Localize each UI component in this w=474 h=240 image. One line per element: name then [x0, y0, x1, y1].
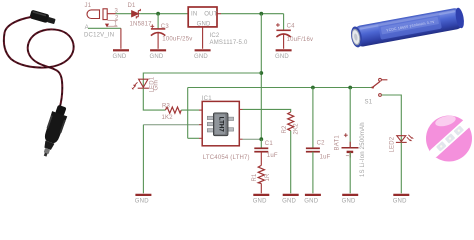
ground GND (BAT1): [342, 195, 359, 205]
svg-text:1uF: 1uF: [320, 155, 331, 161]
LED LED2: [396, 135, 414, 143]
svg-text:C1: C1: [265, 141, 274, 147]
svg-text:AMS1117-5.0: AMS1117-5.0: [210, 40, 248, 46]
svg-text:C4: C4: [287, 24, 296, 30]
svg-text:GND: GND: [253, 199, 267, 205]
svg-text:1S Li-Ion 2500mAh: 1S Li-Ion 2500mAh: [360, 122, 366, 177]
node junction LED1 rail: [259, 71, 263, 75]
wire C2 to ground: [312, 152, 314, 194]
svg-text:1N5817: 1N5817: [130, 22, 153, 28]
wire S1 to LED2: [381, 95, 401, 142]
svg-text:GND: GND: [282, 199, 296, 205]
wire R3 to IC1: [181, 109, 199, 111]
svg-text:1R: 1R: [265, 173, 271, 182]
wire 5V vertical bus: [260, 14, 262, 140]
ground GND (C2): [304, 195, 321, 205]
node junction BAT/C1: [259, 137, 263, 141]
svg-text:Grn: Grn: [154, 80, 160, 91]
transistor chip photo inside IC1: [207, 113, 233, 136]
diode D1 1N5817: [132, 9, 141, 19]
photo: blue 18650 li-ion battery: [349, 7, 465, 48]
svg-text:R3: R3: [162, 104, 171, 110]
svg-text:DC12V_IN: DC12V_IN: [84, 33, 114, 39]
photo: DC barrel plug cable with car lighter plug: [4, 10, 74, 159]
svg-text:C3: C3: [161, 24, 170, 30]
svg-text:LTC4054 (LTH7): LTC4054 (LTH7): [203, 155, 250, 161]
svg-text:IC1: IC1: [202, 96, 212, 102]
svg-text:1K2: 1K2: [162, 115, 174, 121]
svg-text:GND: GND: [197, 21, 211, 27]
ground GND (R1): [253, 195, 270, 205]
ground GND (LED2): [393, 195, 410, 205]
resistor R1 1R: [258, 165, 264, 183]
capacitor C1 1uF: [254, 148, 268, 151]
LED LED1 Grn: [132, 79, 149, 89]
svg-text:LTH7: LTH7: [217, 117, 224, 133]
wire IC1 BAT pin to C1 node: [239, 138, 242, 140]
ground GND (IC2): [194, 50, 211, 60]
wire IC1 VCC pin up to BAT rail: [199, 137, 202, 139]
J1 pin 1: [108, 25, 118, 27]
node junction 5V bus tap: [259, 12, 263, 16]
svg-text:C2: C2: [317, 141, 326, 147]
capacitor C2 1uF: [306, 148, 320, 151]
wire R1 to ground: [260, 184, 262, 194]
wire battery to ground: [349, 152, 351, 193]
wire IC2 OUT to C4 corner: [217, 13, 221, 15]
svg-text:GND: GND: [135, 199, 149, 205]
node junction battery tap: [348, 86, 352, 90]
svg-text:J1: J1: [85, 3, 92, 9]
svg-text:GND: GND: [150, 54, 164, 60]
svg-text:2K2: 2K2: [294, 123, 300, 135]
wire C2 drop: [312, 88, 314, 148]
resistor R2 2K2: [288, 112, 294, 131]
svg-text:10uF/16v: 10uF/16v: [287, 37, 314, 43]
photo: pink circle with LED strip: [426, 114, 472, 162]
ground GND (J1): [113, 50, 130, 60]
svg-text:1uF: 1uF: [267, 153, 278, 159]
wire C4 drop: [283, 14, 285, 30]
wire C1 to R1: [260, 152, 262, 166]
ground GND (C3): [150, 50, 167, 60]
barrel plug body: [29, 10, 56, 26]
switch S1: [371, 78, 387, 96]
wire LED1 rail: [143, 73, 261, 88]
svg-text:GND: GND: [113, 54, 127, 60]
svg-text:OUT: OUT: [204, 11, 217, 17]
wire R2 to ground: [290, 131, 292, 194]
ground GND (R2): [282, 195, 299, 205]
connector J1 DC jack: [87, 9, 115, 20]
svg-text:IC2: IC2: [210, 33, 220, 39]
svg-text:LED2: LED2: [389, 136, 395, 152]
car lighter plug: [38, 104, 70, 159]
J1 pin 2: [108, 19, 118, 21]
wire IC1 GND pin to left: [199, 124, 202, 126]
svg-text:IN: IN: [191, 11, 197, 17]
wire IC1 PROG to R2: [239, 108, 242, 110]
coiled red cable: [4, 17, 74, 109]
wire BAT rail: [188, 87, 372, 89]
wire LED1 cathode down: [143, 88, 165, 110]
svg-text:S1: S1: [365, 99, 373, 105]
regulator IC2 AMS1117-5.0: [188, 7, 217, 27]
svg-text:GND: GND: [393, 199, 407, 205]
wire DC12V_IN: [88, 27, 121, 29]
svg-text:GND: GND: [194, 54, 208, 60]
ground GND (IC1): [135, 195, 152, 205]
node junction C3 tap: [156, 12, 160, 16]
svg-text:D1: D1: [128, 3, 137, 9]
svg-text:GND: GND: [342, 199, 356, 205]
wire battery drop: [349, 88, 351, 148]
IC IC1 LTC4054 box: [202, 101, 239, 145]
svg-text:GND: GND: [275, 54, 289, 60]
svg-text:BAT1: BAT1: [335, 135, 341, 151]
J1 switch arrow: [105, 24, 109, 28]
wire under D1: [132, 13, 140, 15]
wire LED2 to ground: [400, 142, 402, 193]
capacitor C4 10uF/16v: [276, 23, 291, 49]
svg-text:GND: GND: [304, 199, 318, 205]
svg-text:1: 1: [114, 22, 118, 28]
capacitor C3 100uF/25v: [150, 24, 165, 48]
svg-text:R2: R2: [282, 125, 288, 134]
wire C3 tap down: [157, 14, 159, 29]
wire C1 drop: [260, 139, 262, 148]
battery BAT1: [342, 133, 359, 157]
node junction C2 tap: [311, 86, 315, 90]
wire D1 to IC2 IN: [140, 13, 188, 15]
svg-text:100uF/25v: 100uF/25v: [162, 37, 192, 43]
IC2 GND pin: [202, 27, 204, 49]
ground GND (C4): [275, 50, 292, 60]
svg-text:R1: R1: [252, 173, 258, 182]
wire J1 pin3 to D1: [116, 13, 132, 15]
resistor R3 1K2: [165, 107, 181, 113]
